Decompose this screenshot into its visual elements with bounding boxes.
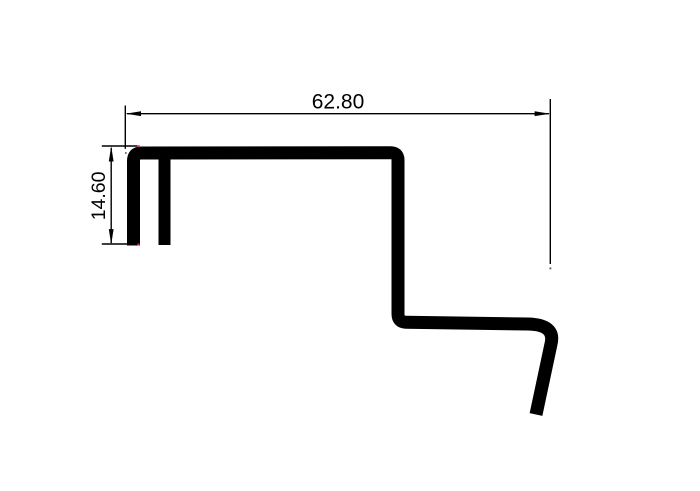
red grip dot at left leg bottom [138,244,140,246]
red grip dot at profile top-left corner [138,145,140,147]
dimension 14.60 : bottom arrowhead [109,229,114,245]
dimension 62.80 : left arrowhead [126,111,142,116]
profile main outline (top bar, left leg, middle web, bottom bar, hook) [134,153,552,415]
dimension 14.60 : top extension tick [102,145,138,147]
svg-text:62.80: 62.80 [312,90,365,113]
dimension 14.60 : top arrowhead [109,146,114,162]
svg-text:14.60: 14.60 [88,171,110,220]
dimension 62.80 : right extension line [549,99,551,264]
dimension 62.80 : right arrowhead [535,111,551,116]
dimension 62.80 : dimension line [127,113,549,115]
dimension 62.80 : stray dot below right extension [550,268,552,270]
dimension 14.60 : dimension line [110,148,112,243]
profile second (inner) leg [159,156,171,245]
dimension 14.60 : bottom extension tick [102,243,139,245]
dimension 62.80 : stray dot below left extension [125,152,127,154]
dimension 62.80 : left extension line [124,106,126,149]
